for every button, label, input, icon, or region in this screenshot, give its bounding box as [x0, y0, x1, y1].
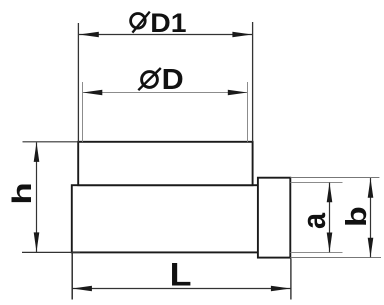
arrow D1 right — [232, 32, 252, 38]
label D1 diameter symbol circle — [131, 13, 146, 28]
label D diameter symbol circle — [142, 72, 158, 88]
arrow D right — [228, 90, 248, 96]
arrow D1 left — [79, 32, 99, 38]
arrow L left — [72, 286, 92, 292]
extension line right of dimension L — [290, 259, 292, 300]
collar spigot rectangle — [258, 178, 290, 258]
arrow a bottom — [327, 233, 333, 253]
upper flange body rectangle — [78, 142, 252, 185]
extension line top of dimension h — [23, 141, 80, 143]
extension line bottom of dimension h — [22, 251, 80, 253]
arrow b top — [368, 178, 374, 198]
extension line right of dimension D — [247, 82, 249, 142]
dimension line h — [36, 142, 38, 252]
dimension line L — [72, 288, 290, 290]
svg-text:h: h — [7, 182, 37, 205]
svg-text:L: L — [170, 257, 192, 293]
dimension line D1 — [79, 34, 252, 36]
extension line left of dimension D — [82, 82, 84, 142]
dimension line b — [370, 178, 372, 257]
svg-text:D1: D1 — [150, 8, 186, 38]
extension line top of dimension a — [291, 182, 343, 184]
extension line left of dimension L — [71, 253, 73, 300]
arrow h top — [34, 142, 40, 162]
arrow L right — [271, 286, 291, 292]
svg-text:b: b — [341, 206, 373, 227]
arrow h bottom — [34, 232, 40, 252]
arrow b bottom — [368, 238, 374, 258]
arrow a top — [327, 183, 333, 203]
dimension line D — [83, 92, 248, 94]
label D diameter symbol slash — [138, 68, 161, 90]
svg-text:D: D — [162, 64, 184, 96]
extension line right of dimension D1 — [252, 22, 254, 142]
dimension line a — [329, 183, 331, 253]
arrow D left — [83, 90, 103, 96]
label D1 diameter symbol slash — [132, 12, 149, 33]
extension line top of dimension b — [290, 177, 379, 179]
extension line bottom of dimension a — [291, 252, 343, 254]
svg-text:a: a — [297, 212, 333, 229]
extension line left of dimension D1 — [77, 23, 79, 142]
extension line bottom of dimension b — [290, 257, 381, 259]
lower flange body rectangle — [72, 185, 258, 252]
